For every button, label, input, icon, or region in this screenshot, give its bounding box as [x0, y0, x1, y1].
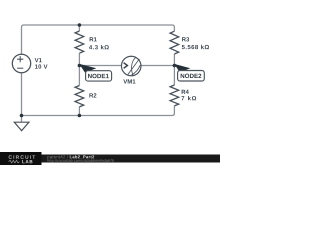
voltmeter VM1 — [121, 56, 141, 76]
wire R3 bottom to node NODE2 — [173, 54, 175, 85]
resistor R1 — [75, 31, 84, 53]
label R4 — [182, 90, 189, 94]
wire VM1 left — [79, 65, 121, 67]
label R2 — [89, 93, 96, 97]
label R1 — [90, 37, 97, 41]
label V1 — [35, 58, 42, 62]
watermark logo block — [0, 152, 42, 165]
watermark logo LAB — [22, 160, 32, 163]
junction node NODE2 — [173, 64, 177, 68]
wire R1 top stub — [78, 25, 80, 31]
wire V1 bottom to ground rail — [21, 73, 23, 116]
label R3 value — [182, 45, 209, 49]
node NODE2 text — [181, 74, 202, 78]
watermark logo CIRCUIT — [9, 155, 36, 159]
wire top rail — [22, 25, 175, 54]
junction top rail R1 — [78, 23, 82, 27]
label R3 — [182, 37, 189, 41]
node NODE2 box — [178, 71, 205, 82]
resistor R4 — [170, 85, 179, 106]
ground — [14, 116, 29, 131]
watermark strip — [0, 155, 220, 163]
node NODE1 text — [88, 74, 109, 78]
node NODE1 box — [86, 71, 112, 81]
label R1 value — [89, 45, 109, 49]
label V1 value — [35, 64, 48, 68]
watermark text user — [47, 155, 68, 159]
label R4 value — [181, 96, 196, 100]
junction node NODE1 — [78, 64, 82, 68]
label VM1 — [123, 79, 135, 83]
watermark logo squiggle — [9, 160, 20, 163]
wire bottom rail — [22, 106, 175, 116]
resistor R3 — [170, 31, 179, 54]
wire VM1 right — [141, 65, 174, 67]
wire R2 bottom stub — [78, 107, 80, 116]
watermark text title — [70, 155, 94, 159]
voltage source V1 — [12, 54, 30, 72]
watermark text url — [47, 159, 114, 162]
node NODE2 pointer — [174, 64, 190, 73]
node NODE1 pointer — [79, 64, 96, 73]
resistor R2 — [75, 86, 84, 107]
junction ground — [20, 114, 24, 118]
wire R1 bottom to node NODE1 — [78, 53, 80, 85]
junction bottom rail R2 — [78, 114, 82, 118]
